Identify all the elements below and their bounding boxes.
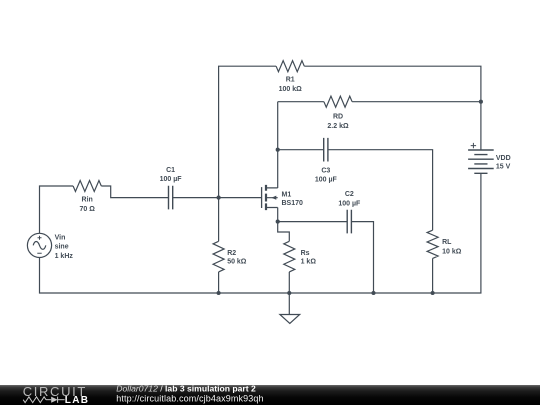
svg-text:VDD: VDD bbox=[496, 155, 511, 162]
svg-text:1 kΩ: 1 kΩ bbox=[301, 259, 317, 266]
svg-text:C2: C2 bbox=[345, 191, 354, 198]
svg-text:RD: RD bbox=[333, 114, 343, 121]
svg-text:70 Ω: 70 Ω bbox=[80, 206, 96, 213]
svg-text:Vin: Vin bbox=[55, 234, 66, 241]
svg-text:LAB: LAB bbox=[65, 395, 89, 405]
svg-text:2.2 kΩ: 2.2 kΩ bbox=[327, 123, 349, 130]
svg-text:100 kΩ: 100 kΩ bbox=[279, 86, 303, 93]
svg-text:1 kHz: 1 kHz bbox=[55, 253, 74, 260]
svg-text:Rin: Rin bbox=[82, 197, 93, 204]
svg-text:Dollar0712 / lab 3 simulation: Dollar0712 / lab 3 simulation part 2 bbox=[116, 383, 256, 393]
svg-text:100 µF: 100 µF bbox=[338, 200, 361, 207]
svg-text:BS170: BS170 bbox=[282, 200, 304, 207]
svg-text:M1: M1 bbox=[282, 192, 292, 199]
svg-text:RL: RL bbox=[442, 239, 452, 246]
svg-text:C3: C3 bbox=[321, 167, 330, 174]
svg-text:Rs: Rs bbox=[301, 250, 310, 257]
svg-text:sine: sine bbox=[55, 244, 69, 251]
svg-text:15 V: 15 V bbox=[496, 164, 511, 171]
svg-text:R2: R2 bbox=[227, 250, 236, 257]
svg-text:100 µF: 100 µF bbox=[160, 176, 183, 183]
svg-text:10 kΩ: 10 kΩ bbox=[442, 248, 462, 255]
svg-text:R1: R1 bbox=[286, 76, 295, 83]
svg-text:100 µF: 100 µF bbox=[315, 177, 338, 184]
svg-text:C1: C1 bbox=[166, 167, 175, 174]
svg-text:http://circuitlab.com/cjb4ax9m: http://circuitlab.com/cjb4ax9mk93qh bbox=[116, 394, 263, 404]
svg-text:50 kΩ: 50 kΩ bbox=[227, 259, 247, 266]
